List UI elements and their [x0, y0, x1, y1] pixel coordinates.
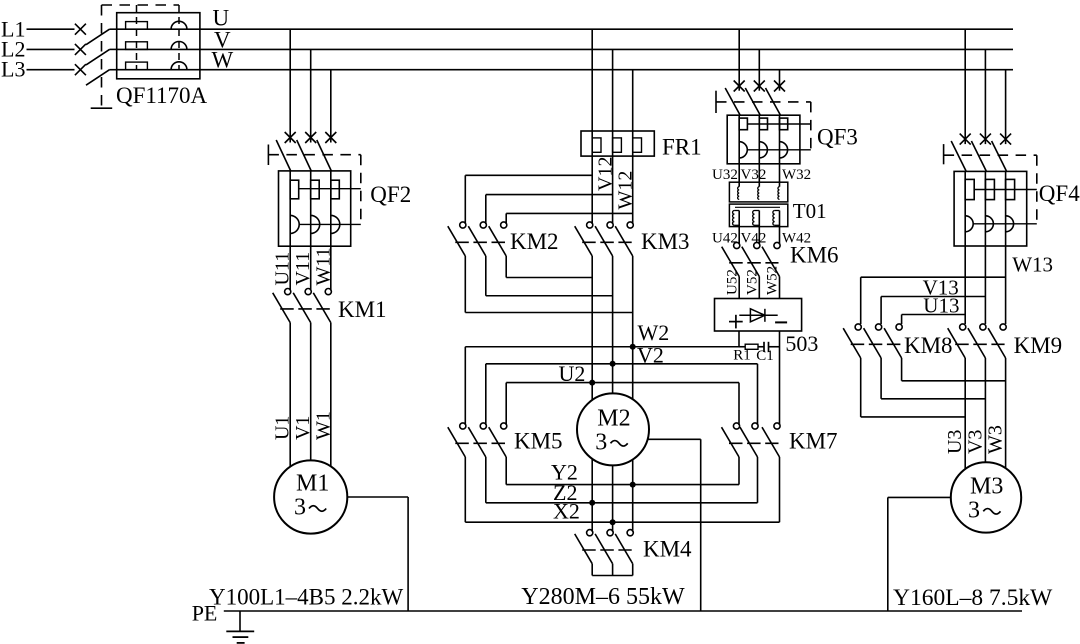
svg-text:L3: L3	[1, 57, 25, 82]
svg-text:R1: R1	[733, 348, 751, 364]
svg-text:KM3: KM3	[641, 229, 690, 254]
svg-text:3: 3	[294, 495, 306, 521]
svg-text:W: W	[212, 48, 234, 73]
svg-text:U11: U11	[272, 252, 294, 286]
svg-text:3: 3	[968, 497, 980, 523]
svg-text:W32: W32	[782, 167, 811, 183]
svg-text:KM7: KM7	[789, 429, 838, 454]
svg-text:Y160L–8 7.5kW: Y160L–8 7.5kW	[893, 585, 1053, 611]
svg-text:V52: V52	[745, 269, 761, 295]
svg-text:V11: V11	[292, 252, 314, 286]
svg-text:M2: M2	[597, 406, 630, 432]
svg-text:W13: W13	[1012, 253, 1053, 277]
svg-text:FR1: FR1	[662, 135, 702, 160]
svg-text:W12: W12	[615, 171, 637, 210]
svg-text:U3: U3	[944, 430, 966, 454]
svg-text:Y100L1–4B5 2.2kW: Y100L1–4B5 2.2kW	[209, 585, 404, 610]
svg-text:Y280M–6 55kW: Y280M–6 55kW	[521, 584, 685, 610]
svg-text:W11: W11	[312, 247, 334, 285]
svg-text:X2: X2	[553, 499, 580, 524]
svg-text:QF4: QF4	[1039, 181, 1080, 206]
svg-text:3: 3	[595, 429, 607, 455]
svg-text:C1: C1	[756, 348, 774, 364]
svg-text:W2: W2	[638, 320, 670, 345]
svg-text:W52: W52	[765, 266, 781, 295]
svg-text:V3: V3	[964, 430, 986, 454]
svg-text:V32: V32	[741, 167, 767, 183]
svg-text:U52: U52	[724, 269, 740, 295]
svg-text:KM1: KM1	[338, 297, 387, 322]
svg-text:M1: M1	[296, 471, 329, 497]
svg-text:V1: V1	[292, 416, 314, 440]
svg-text:KM9: KM9	[1014, 333, 1063, 358]
svg-text:U1: U1	[272, 416, 294, 440]
svg-text:KM6: KM6	[790, 243, 839, 268]
svg-text:U13: U13	[923, 294, 959, 318]
svg-text:KM8: KM8	[904, 333, 953, 358]
svg-text:V12: V12	[595, 157, 617, 191]
svg-text:T01: T01	[793, 199, 827, 223]
svg-text:M3: M3	[970, 474, 1003, 500]
svg-text:KM4: KM4	[643, 537, 692, 562]
svg-text:QF3: QF3	[817, 125, 858, 150]
svg-text:QF2: QF2	[370, 182, 411, 207]
svg-text:KM2: KM2	[510, 229, 559, 254]
svg-text:QF1170A: QF1170A	[116, 83, 208, 108]
svg-text:503: 503	[785, 331, 818, 356]
svg-text:U32: U32	[712, 167, 738, 183]
svg-text:KM5: KM5	[514, 429, 563, 454]
svg-text:W3: W3	[985, 425, 1007, 454]
svg-text:W1: W1	[312, 411, 334, 440]
